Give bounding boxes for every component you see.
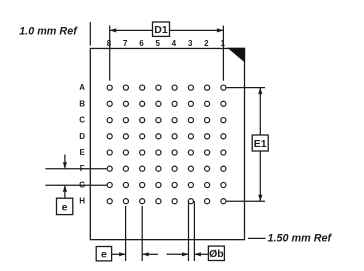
ball row F (pins F8-F1) [107,166,226,171]
ball diameter tangent line left of ball H3 [188,201,190,261]
svg-text:e: e [62,202,68,214]
ball diameter arrow pointing right [167,253,189,255]
extension line from ball H7 (bottom) [125,206,127,261]
svg-text:6: 6 [139,39,144,48]
svg-text:5: 5 [155,39,160,48]
extension line from package left edge [89,22,91,46]
extension line from ball column 1 [222,26,224,81]
svg-text:A: A [79,83,85,92]
extension line from ball row F (left side) [46,168,107,170]
svg-text:E: E [80,148,86,157]
pin A1 corner index triangle [227,48,245,63]
svg-text:D1: D1 [154,24,168,36]
svg-text:H: H [79,197,85,206]
svg-text:B: B [79,99,85,108]
dimension label box Ob (ball diameter) [208,246,224,260]
extension line from ball row A (right side) [227,87,265,89]
svg-text:2: 2 [204,39,209,48]
ball row E (pins E8-E1) [107,150,226,155]
extension line from ball column 8 [109,26,111,81]
ball row H (pins H8-H1) [107,199,226,204]
dimension label box D1 [153,22,170,36]
svg-text:D: D [79,132,85,141]
svg-text:Øb: Øb [209,248,224,260]
ball row D (pins D8-D1) [107,134,226,139]
ball diameter arrow pointing left [194,253,208,255]
ball diameter tangent line right of ball H3 [193,201,195,261]
row pitch arrow pointing up at row G [64,185,66,198]
dimension line E1 with arrowheads [259,88,261,202]
ball row A (pins A8-A1) [107,85,226,90]
dimension label box e (column pitch) [96,247,111,261]
ball row C (pins C8-C1) [107,118,226,123]
dimension line D1 with arrowheads [110,29,224,31]
leader line to 1.50 mm Ref note [248,237,266,239]
svg-text:7: 7 [123,39,128,48]
svg-text:E1: E1 [254,138,267,150]
svg-text:4: 4 [172,39,177,48]
svg-text:C: C [79,116,85,125]
svg-text:3: 3 [188,39,193,48]
svg-text:1.50 mm Ref: 1.50 mm Ref [268,233,333,245]
extension line from ball row G (left side) [46,184,107,186]
extension line from ball row H (right side) [227,200,265,202]
row pitch arrow pointing down at row F [64,155,66,169]
column pitch arrow pointing left at ball H6 line [142,253,158,255]
svg-text:1.0 mm Ref: 1.0 mm Ref [19,25,78,37]
ball row B (pins B8-B1) [107,101,226,106]
dimension label box E1 [252,135,268,151]
svg-text:e: e [101,248,107,260]
column pitch arrow pointing right at ball H7 line [112,253,126,255]
ball row G (pins G8-G1) [107,182,226,187]
extension line from ball H6 (bottom) [141,206,143,261]
package body outline (BGA bottom view) [90,48,244,239]
dimension label box e (row pitch) [57,198,73,214]
